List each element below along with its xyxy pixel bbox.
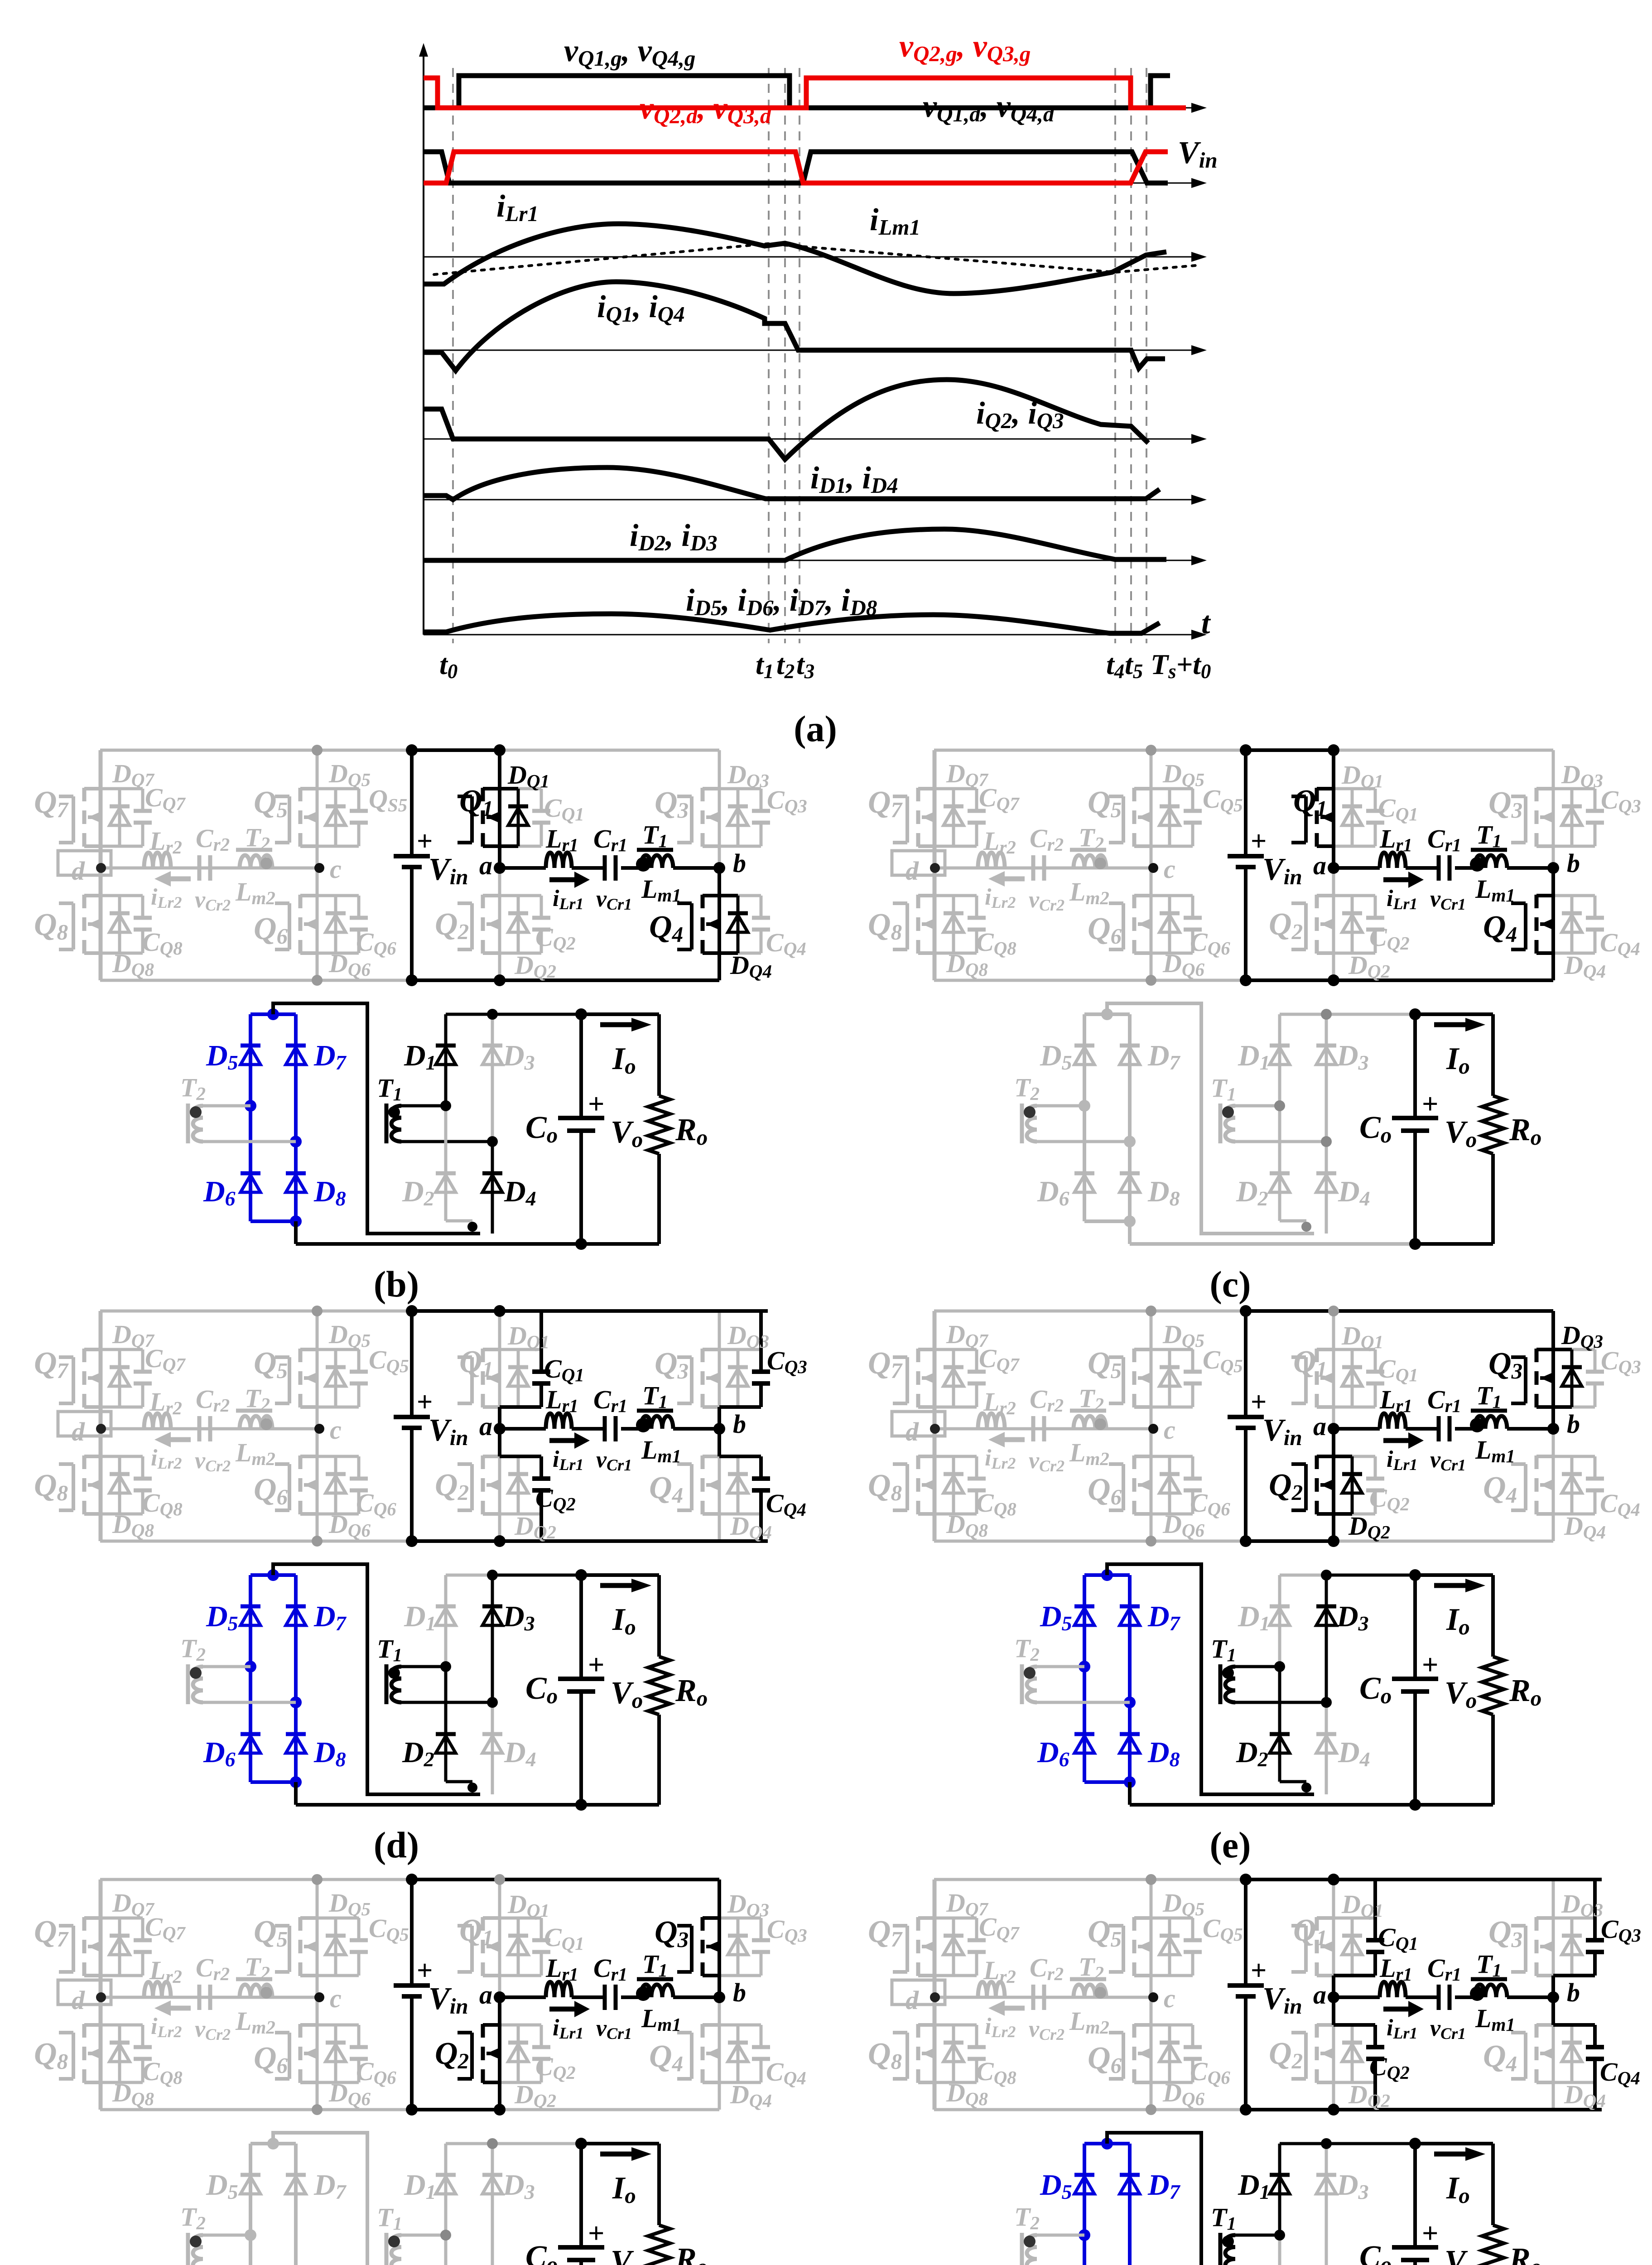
svg-text:a: a [479, 1980, 492, 2010]
svg-text:(b): (b) [374, 1263, 419, 1305]
svg-text:c: c [1164, 854, 1175, 884]
svg-text:b: b [1567, 1978, 1580, 2007]
svg-text:c: c [330, 1984, 342, 2013]
svg-text:+: + [588, 1088, 604, 1120]
svg-text:+: + [588, 2217, 604, 2249]
svg-text:b: b [733, 1978, 746, 2007]
svg-text:b: b [1567, 1409, 1580, 1439]
svg-text:(c): (c) [1209, 1263, 1251, 1305]
svg-text:c: c [330, 854, 342, 884]
svg-text:a: a [479, 1412, 492, 1441]
svg-text:a: a [479, 851, 492, 880]
svg-text:+: + [1422, 1648, 1438, 1681]
svg-text:c: c [1164, 1415, 1175, 1445]
svg-text:+: + [588, 1648, 604, 1681]
svg-text:(d): (d) [374, 1824, 419, 1865]
svg-text:d: d [72, 1985, 85, 2015]
svg-text:d: d [905, 856, 919, 886]
svg-text:(a): (a) [794, 708, 837, 749]
svg-text:d: d [72, 856, 85, 886]
svg-text:d: d [72, 1417, 85, 1446]
svg-text:+: + [1422, 2217, 1438, 2249]
svg-text:(e): (e) [1209, 1824, 1251, 1865]
svg-text:b: b [733, 848, 746, 878]
svg-text:+: + [1422, 1088, 1438, 1120]
svg-text:b: b [733, 1409, 746, 1439]
svg-text:a: a [1313, 1980, 1326, 2010]
svg-text:c: c [330, 1415, 342, 1445]
svg-text:d: d [905, 1417, 919, 1446]
svg-text:c: c [1164, 1984, 1175, 2013]
svg-text:t: t [1201, 606, 1211, 641]
svg-text:a: a [1313, 1412, 1326, 1441]
svg-text:b: b [1567, 848, 1580, 878]
svg-text:d: d [905, 1985, 919, 2015]
svg-text:a: a [1313, 851, 1326, 880]
